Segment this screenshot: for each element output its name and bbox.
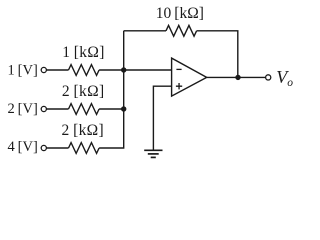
svg-text:2 [V]: 2 [V]	[8, 101, 38, 117]
wire row2 from terminal to R2	[47, 108, 69, 110]
svg-text:2 [kΩ]: 2 [kΩ]	[62, 83, 105, 100]
svg-text:2 [kΩ]: 2 [kΩ]	[62, 122, 105, 139]
wire feedback top left	[124, 30, 166, 32]
wire row2 from R2 to node bus	[99, 108, 124, 110]
resistor R2 2[kΩ]	[69, 104, 100, 115]
svg-text:1 [V]: 1 [V]	[8, 63, 38, 79]
wire row1 from R1 to inverting input	[99, 69, 172, 71]
terminal input 2	[41, 106, 46, 111]
svg-text:10 [kΩ]: 10 [kΩ]	[156, 5, 204, 22]
wire feedback top right	[197, 31, 238, 78]
resistor Rf 10[kΩ]	[166, 25, 197, 36]
junction node row2	[121, 106, 126, 111]
resistor R1 1[kΩ]	[69, 65, 100, 76]
wire row1 from terminal to R1	[47, 69, 69, 71]
op-amp minus sign	[176, 68, 181, 70]
wire output	[207, 76, 266, 78]
junction node output	[235, 75, 240, 80]
junction node row1	[121, 67, 126, 72]
wire row3 from R3 to bus corner	[99, 109, 124, 148]
svg-text:Vo: Vo	[276, 67, 293, 89]
svg-text:1 [kΩ]: 1 [kΩ]	[62, 44, 105, 61]
op-amp plus sign	[176, 83, 182, 89]
svg-text:4 [V]: 4 [V]	[8, 139, 38, 155]
terminal output Vo	[266, 75, 271, 80]
op-amp U1	[172, 58, 207, 96]
resistor R3 2[kΩ]	[69, 143, 100, 154]
wire row3 from terminal to R3	[47, 147, 69, 149]
wire bus vertical node A	[123, 31, 125, 109]
terminal input 1	[41, 67, 46, 72]
terminal input 3	[41, 145, 46, 150]
wire noninverting input	[153, 86, 171, 150]
ground	[144, 150, 162, 157]
